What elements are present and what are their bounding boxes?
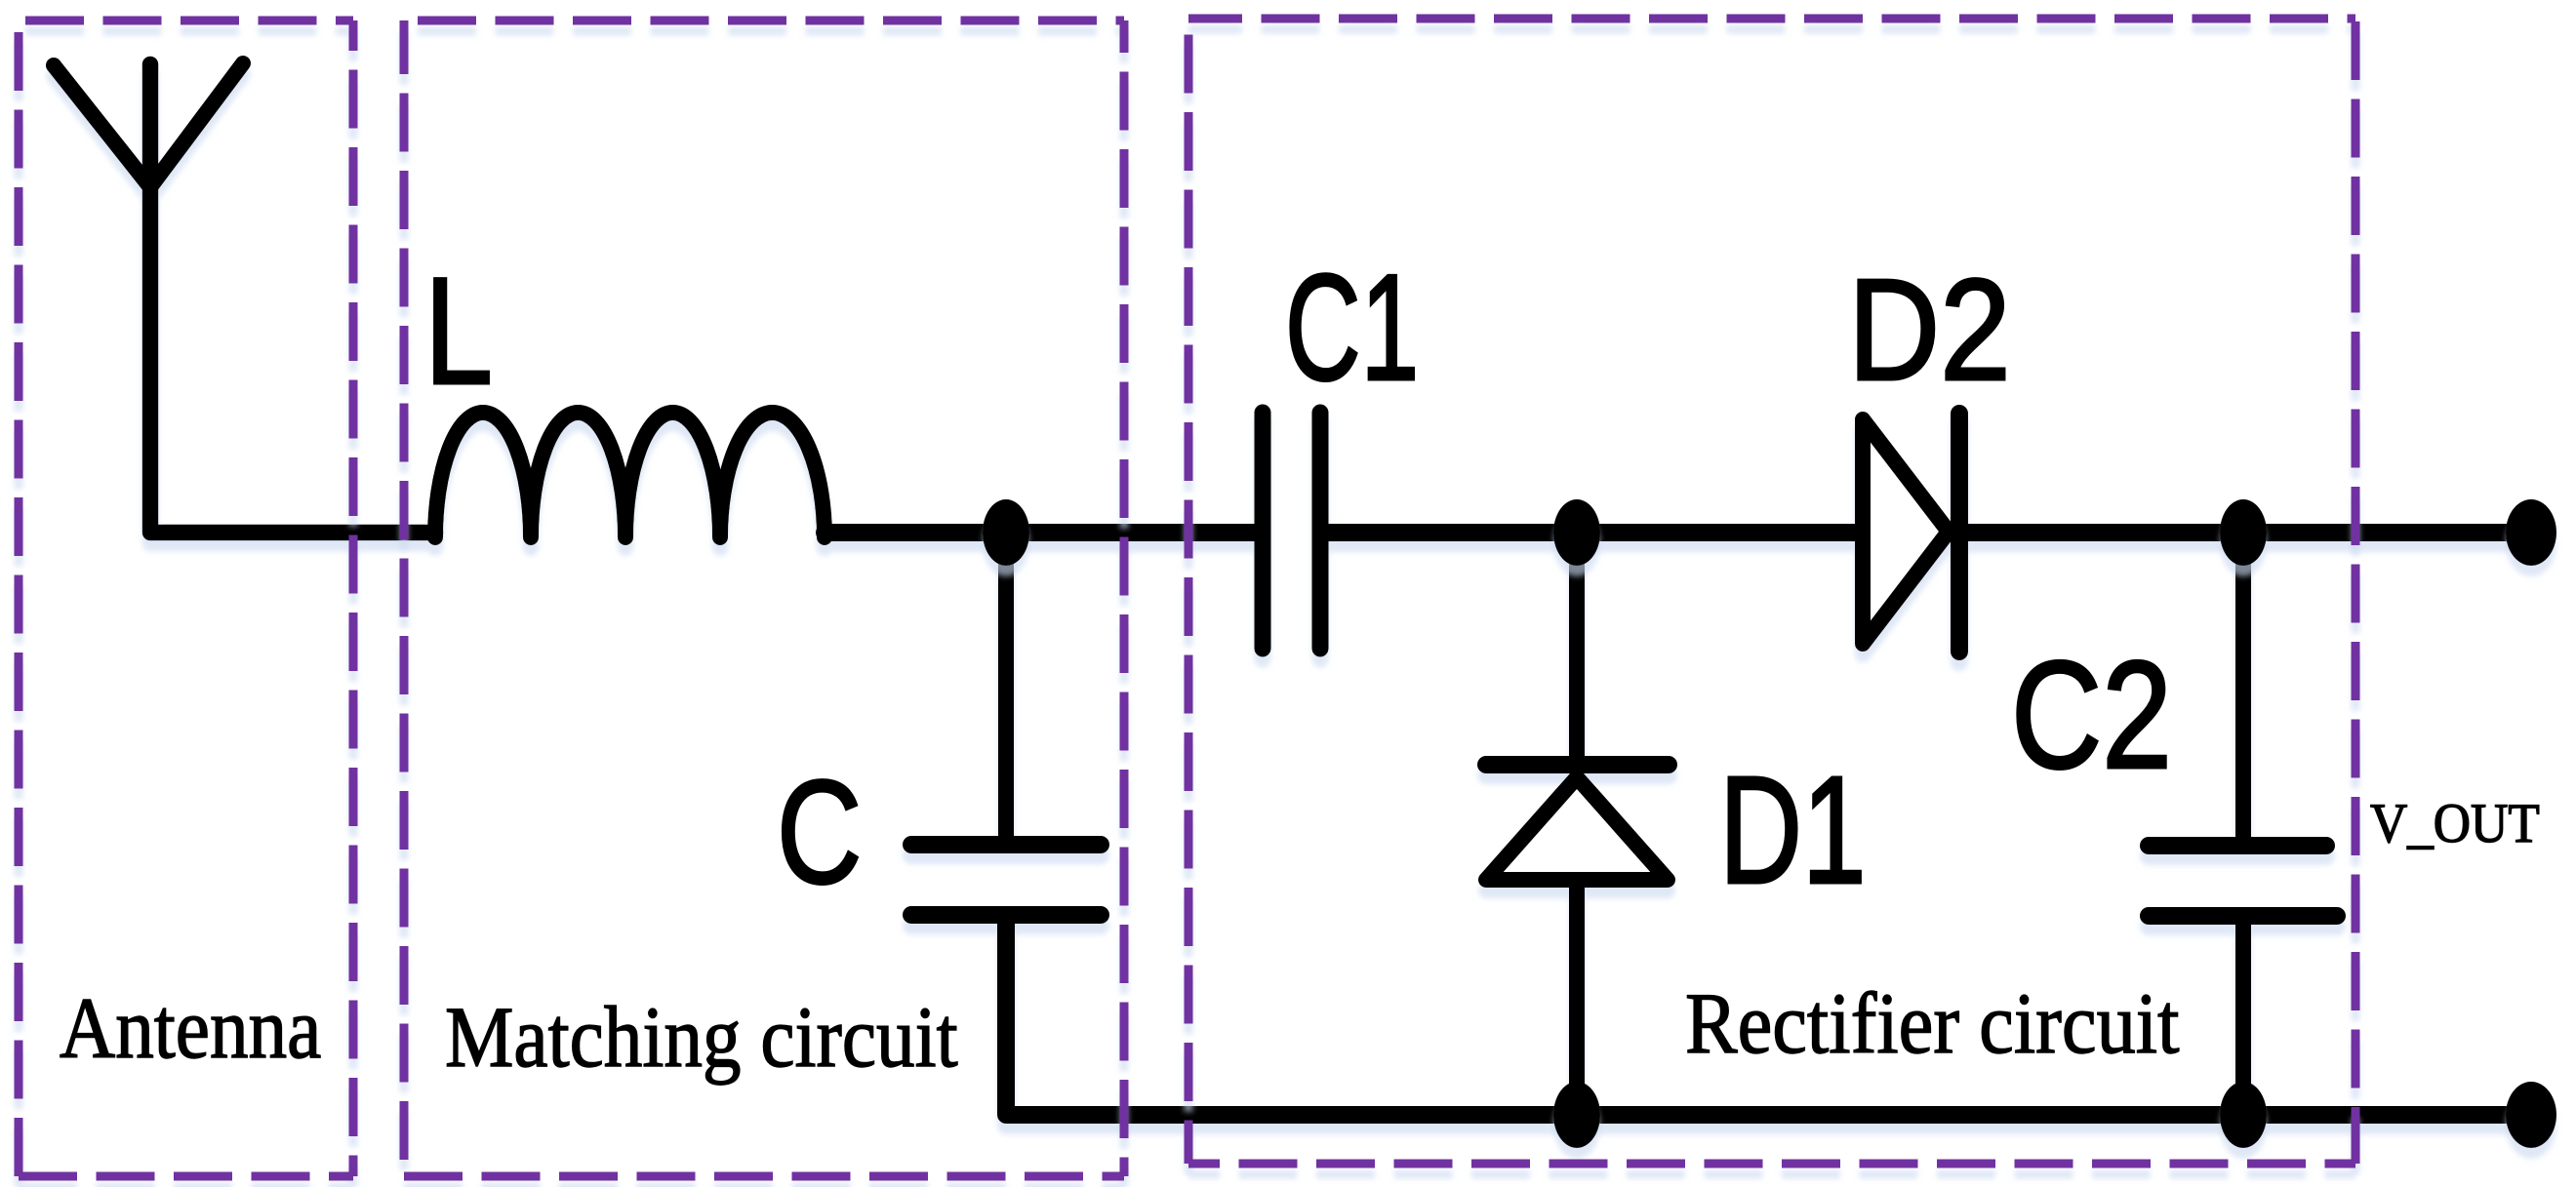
capacitor C2 plates <box>2149 837 2326 854</box>
svg-text:Rectifier circuit: Rectifier circuit <box>1685 975 2180 1072</box>
capacitor C plates <box>911 836 1101 853</box>
wire C1 to D2 <box>1327 524 1859 541</box>
diode D2 cathode bar <box>1951 414 1968 652</box>
Rectifier circuit block dashed box <box>1188 15 2355 23</box>
svg-text:D2: D2 <box>1848 249 2011 411</box>
Antenna block dashed box <box>19 17 353 25</box>
wire D2 to output terminal <box>1964 524 2531 541</box>
junction node 3 <box>2220 499 2267 566</box>
bottom rail wire <box>1006 917 2531 1115</box>
output terminal bottom <box>2506 1082 2556 1148</box>
capacitor C1 plates <box>1255 413 1271 649</box>
wire antenna pole to inductor <box>150 64 435 533</box>
junction node 2 <box>1553 499 1600 566</box>
wire node3 down to C2 <box>2235 533 2251 837</box>
wire C2 to bottom rail <box>2235 918 2251 1115</box>
antenna symbol <box>54 65 150 187</box>
junction node 5 bottom <box>2220 1082 2267 1148</box>
svg-text:D1: D1 <box>1719 745 1867 916</box>
wire D1 to bottom rail <box>1569 882 1585 1115</box>
svg-text:C2: C2 <box>2011 630 2172 801</box>
diode D1 cathode bar <box>1486 756 1669 773</box>
junction node 4 bottom <box>1553 1082 1600 1148</box>
inductor L <box>435 413 825 537</box>
svg-text:Matching circuit: Matching circuit <box>445 990 958 1086</box>
output terminal top <box>2506 499 2556 566</box>
diode D1 triangle <box>1486 777 1668 880</box>
wire node2 down to D1 <box>1569 533 1585 759</box>
svg-text:C1: C1 <box>1285 243 1419 412</box>
diode D2 triangle <box>1863 419 1949 644</box>
svg-text:L: L <box>424 247 493 416</box>
svg-text:V_OUT: V_OUT <box>2370 792 2540 853</box>
svg-text:Antenna: Antenna <box>60 981 321 1077</box>
svg-text:C: C <box>777 749 862 914</box>
junction node 1 <box>983 499 1029 566</box>
Matching circuit block dashed box <box>404 17 1124 25</box>
wire node1 down to C <box>998 533 1014 836</box>
wire inductor to C1 <box>825 524 1255 541</box>
